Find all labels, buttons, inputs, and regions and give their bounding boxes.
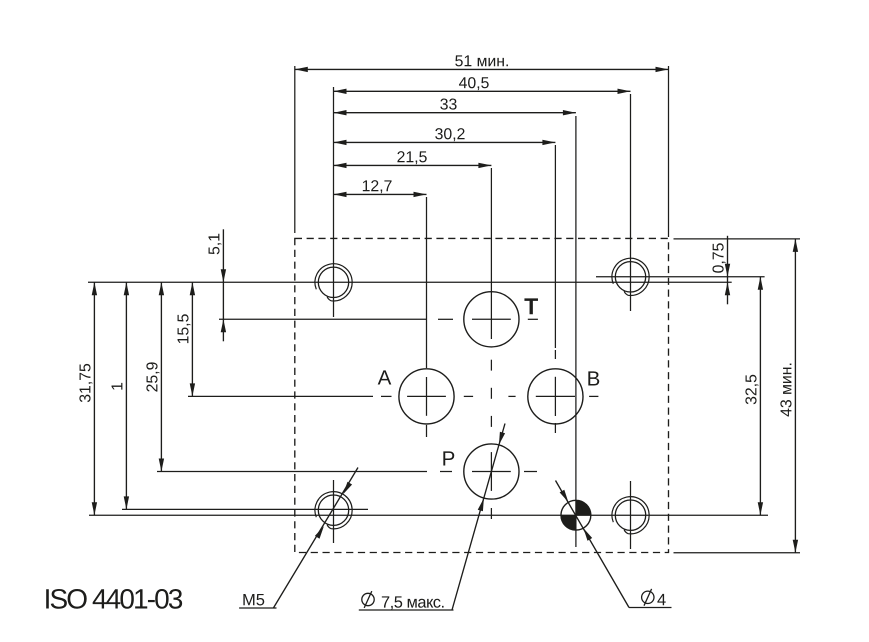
centerline bottom-left hole vertical (333, 480, 335, 543)
centerline port A column (426, 197, 428, 437)
leader M5 (239, 468, 358, 609)
dimension 15,5 (178, 282, 196, 396)
centerline top-right hole row y=277 (596, 276, 765, 278)
dimension 33 (334, 98, 576, 115)
centerline P row (157, 471, 537, 473)
plate outline (dashed) (295, 238, 669, 552)
label P (443, 451, 454, 465)
dimension 5,1 (209, 229, 227, 341)
dimension 40,5 (334, 77, 631, 94)
dimension 0,75 (712, 236, 730, 304)
extension line pin hole column x=575.9 (575, 116, 577, 547)
port B (528, 369, 583, 424)
centerline T row (219, 318, 538, 320)
label ISO 4401-03 (46, 589, 182, 609)
dimension 51 min (295, 55, 669, 72)
label B (588, 371, 599, 385)
centerline port B column (554, 145, 556, 433)
pin hole d4 datum target (561, 500, 591, 530)
port T (464, 292, 519, 347)
extension line right hole column x=630.5 (630, 94, 632, 311)
leader diameter 7,5 max (359, 424, 505, 611)
centerline A-B row (188, 395, 598, 397)
dimension 43 min (780, 239, 798, 553)
mounting hole M5 bottom-right (612, 497, 649, 534)
mounting hole M5 bottom-left (315, 492, 352, 529)
dimension 30,2 (334, 128, 556, 145)
label diameter 7,5 max (362, 591, 444, 610)
extension line plate top edge right (674, 238, 801, 240)
dimension 21,5 (334, 151, 492, 168)
extension line left hole column x=333.5 (333, 87, 335, 317)
port A (399, 369, 454, 424)
label A (378, 370, 392, 384)
label diameter 4 (642, 589, 666, 606)
port P (464, 444, 519, 499)
leader diameter 4 (556, 481, 672, 608)
mounting hole M5 top-right (612, 258, 649, 295)
dimension 25,9 (146, 282, 164, 471)
centerline T-P column (490, 168, 492, 519)
extension line 51 min left (294, 66, 296, 233)
centerline bottom-right hole vertical (630, 481, 632, 549)
label T (524, 298, 538, 314)
dimension 12,7 (334, 180, 427, 197)
dimension 32,5 (745, 277, 763, 515)
centerline top hole row y=282 (88, 281, 732, 283)
extension line plate bottom edge right (674, 552, 801, 554)
label M5 (243, 594, 264, 606)
dimension 1 (112, 282, 130, 509)
centerline bottom-left hole row y=509 (122, 508, 368, 510)
dimension 31,75 (79, 282, 97, 515)
centerline bottom row y=515 (89, 514, 768, 516)
extension line 51 min right (668, 66, 670, 237)
mounting hole M5 top-left (315, 264, 352, 301)
